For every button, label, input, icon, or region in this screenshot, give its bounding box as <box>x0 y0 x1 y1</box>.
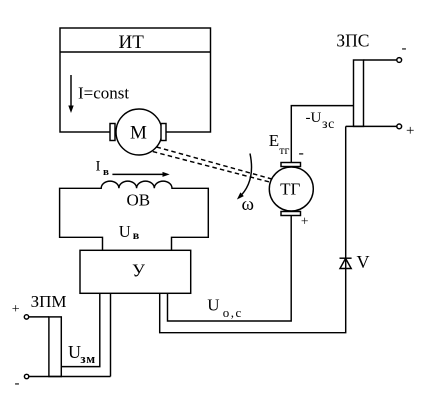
wire: У stub down to diode rail <box>160 126 346 332</box>
svg-text:в: в <box>133 228 140 242</box>
svg-text:ЗПС: ЗПС <box>336 31 369 51</box>
svg-text:ОВ: ОВ <box>126 191 150 210</box>
field winding box ОВ with inductor bumps <box>60 181 209 251</box>
current source box ИТ <box>60 28 211 132</box>
tachogenerator ТГ <box>269 167 313 211</box>
terminal circle ЗПС plus <box>397 124 402 129</box>
wire: ТГ top to ЗПС wiper (-Uзс) <box>291 106 353 163</box>
wire: ЗПМ minus rail <box>29 376 111 378</box>
brush bottom of ТГ <box>281 212 301 216</box>
svg-text:ТГ: ТГ <box>280 179 300 198</box>
svg-text:-: - <box>402 41 407 57</box>
omega rotation arrow <box>237 154 252 200</box>
arrow Iв <box>112 172 169 177</box>
svg-text:-U: -U <box>306 110 322 126</box>
brush left of M <box>110 124 115 141</box>
amplifier box У <box>80 250 191 293</box>
wire: ЗПМ plus terminal to top <box>29 316 49 318</box>
svg-text:зм: зм <box>80 351 96 366</box>
svg-text:ИТ: ИТ <box>119 32 145 53</box>
svg-text:-: - <box>299 145 304 162</box>
svg-text:+: + <box>301 214 309 229</box>
diode V triangle <box>340 258 351 268</box>
svg-text:-: - <box>15 376 20 392</box>
svg-text:U: U <box>207 295 219 314</box>
diode V bar <box>340 257 352 259</box>
svg-text:ЗПМ: ЗПМ <box>31 292 67 311</box>
terminal circle ЗПМ plus <box>24 315 28 319</box>
svg-text:V: V <box>357 252 370 272</box>
brush right of M <box>161 124 166 141</box>
svg-text:М: М <box>130 122 147 143</box>
shaft (dashed coupling M to TG) <box>153 147 272 182</box>
svg-text:U: U <box>68 342 81 362</box>
wire: У output stub to ЗПМ tap <box>61 293 100 366</box>
motor M <box>116 109 162 155</box>
svg-text:ω: ω <box>242 194 255 215</box>
svg-text:U: U <box>119 222 131 241</box>
svg-text:о,с: о,с <box>223 305 243 320</box>
svg-text:+: + <box>406 123 414 139</box>
wire: feedback Uо,с from У to TG plus <box>168 216 292 322</box>
potentiometer ЗПС <box>354 60 364 126</box>
separator line of ИТ box <box>60 51 211 53</box>
wire: ЗПС top to minus terminal <box>364 59 397 61</box>
brush top of ТГ <box>281 163 301 167</box>
terminal circle ЗПС minus <box>397 58 402 63</box>
wire: ЗПС bottom to plus terminal <box>346 125 397 127</box>
svg-text:в: в <box>103 166 109 178</box>
svg-text:E: E <box>269 131 279 150</box>
svg-text:I=const: I=const <box>78 84 129 103</box>
arrow I=const <box>68 75 73 113</box>
terminal circle ЗПМ minus <box>24 374 28 378</box>
svg-text:I: I <box>96 159 101 175</box>
potentiometer ЗПМ <box>49 317 61 377</box>
svg-text:зс: зс <box>322 117 335 132</box>
svg-text:+: + <box>12 302 20 317</box>
svg-text:тг: тг <box>279 143 289 157</box>
wire: У stub down to minus rail <box>110 293 112 376</box>
svg-text:У: У <box>132 261 145 281</box>
